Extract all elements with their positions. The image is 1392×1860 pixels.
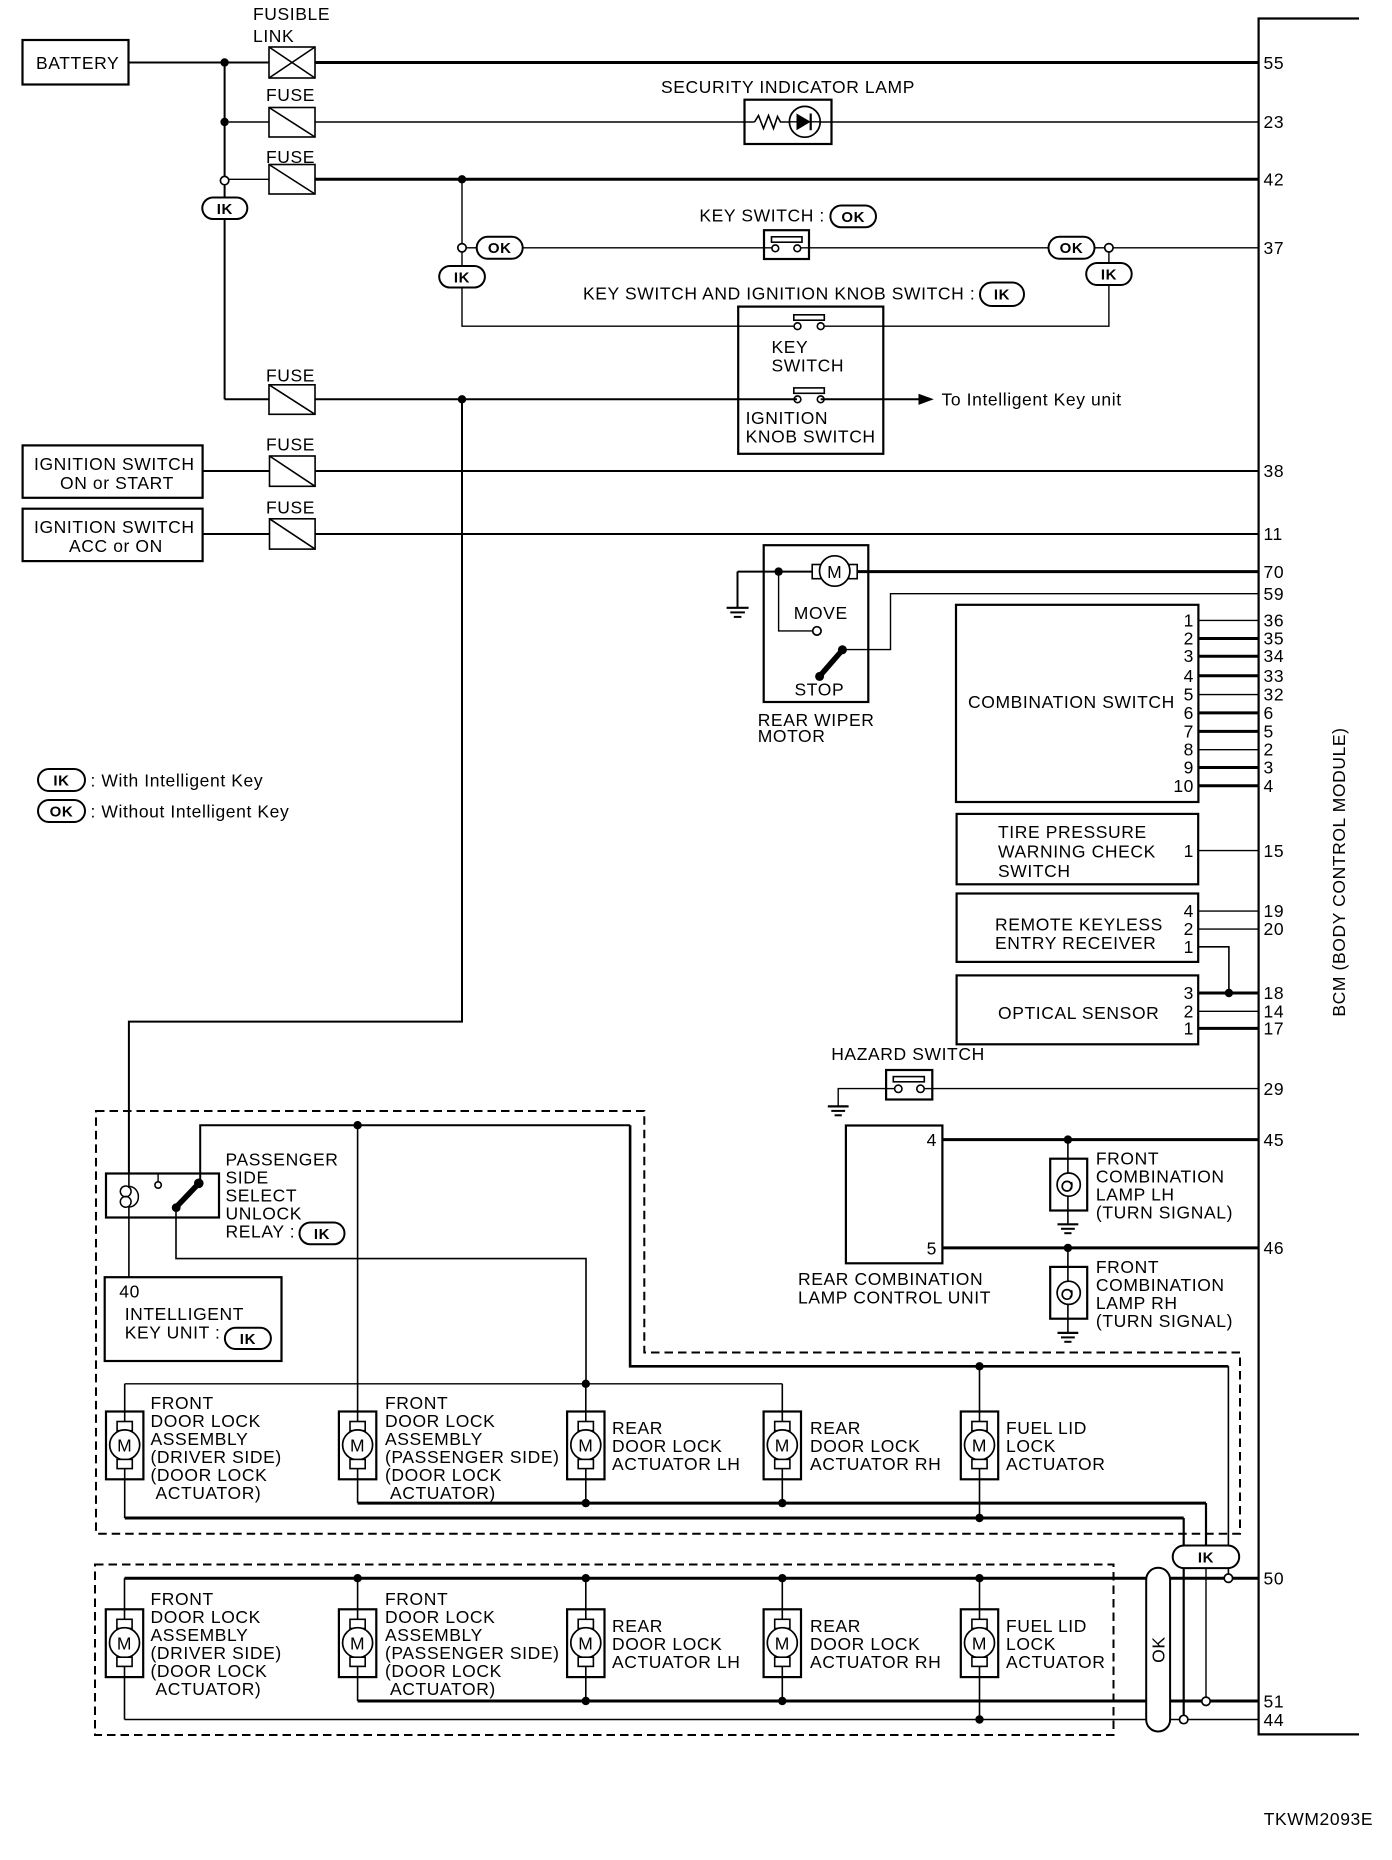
wire 42 to BCM [315, 178, 1259, 181]
svg-text:OK: OK [841, 209, 865, 226]
svg-text:23: 23 [1264, 112, 1285, 132]
combination switch pin numbers [1173, 610, 1194, 795]
svg-text:6: 6 [1264, 703, 1274, 723]
IK oval label left branch [439, 266, 485, 288]
motor M3 rear door lock LH [567, 1412, 604, 1480]
svg-text:REMOTE KEYLESS: REMOTE KEYLESS [995, 915, 1163, 935]
svg-text:FRONT: FRONT [385, 1589, 448, 1609]
svg-text:TIRE PRESSURE: TIRE PRESSURE [998, 822, 1147, 842]
wire 51 bus row2 [358, 1700, 1259, 1703]
wire row1 rear RH return [781, 1469, 783, 1504]
wire fuse F2 feed [229, 178, 269, 180]
key switch S2 contacts [772, 315, 845, 376]
svg-text:KEY UNIT :: KEY UNIT : [125, 1323, 221, 1343]
svg-text:M: M [827, 562, 842, 582]
node fuel lid feed junction [975, 1362, 983, 1370]
svg-text:ON or START: ON or START [60, 473, 174, 493]
rear combination lamp control unit box [846, 1126, 943, 1264]
label front door lock assembly driver side row1 [151, 1393, 282, 1503]
motor M4 rear door lock RH [764, 1412, 801, 1480]
svg-text:(TURN SIGNAL): (TURN SIGNAL) [1096, 1311, 1233, 1331]
wire 59 [842, 594, 1258, 650]
wire hazard to ground [838, 1089, 886, 1107]
wire 18 [1198, 992, 1258, 995]
wire row1 passenger feed [357, 1125, 359, 1421]
wire row1 bus B to pin 44 [125, 1517, 1184, 1520]
OK oval label right [1049, 237, 1095, 259]
wire row1 bus A vertical [1205, 1503, 1207, 1556]
label rear door lock actuator RH row1 [810, 1418, 941, 1474]
label rear door lock actuator RH row2 [810, 1616, 941, 1672]
svg-text:IK: IK [454, 269, 470, 286]
node bus A junction rear RH [778, 1499, 786, 1507]
svg-text:32: 32 [1264, 685, 1285, 705]
svg-text:LOCK: LOCK [1006, 1634, 1056, 1654]
hazard switch S4 [886, 1070, 932, 1100]
svg-text:PASSENGER: PASSENGER [226, 1150, 339, 1170]
svg-text:BATTERY: BATTERY [36, 53, 119, 73]
wire fuse F1 feed [229, 121, 269, 123]
svg-text:44: 44 [1264, 1710, 1285, 1730]
node open connector key switch branch [458, 244, 466, 252]
svg-text:ACTUATOR): ACTUATOR) [156, 1483, 262, 1503]
node wire51 junction rear LH [582, 1697, 590, 1705]
wire row1 rear LH return [585, 1469, 587, 1504]
svg-text:40: 40 [119, 1282, 140, 1302]
motor M9 rear door lock RH row2 [764, 1609, 801, 1677]
svg-text:IK: IK [53, 772, 69, 789]
relay bus wire [200, 1125, 630, 1180]
svg-text:(DOOR LOCK: (DOOR LOCK [151, 1661, 268, 1681]
dashed box without intelligent key group [95, 1565, 1114, 1736]
ground hazard switch [828, 1106, 849, 1115]
svg-text:SECURITY INDICATOR LAMP: SECURITY INDICATOR LAMP [661, 77, 915, 97]
legend IK with intelligent key [38, 769, 263, 791]
wire relay feed to row1 right [630, 1125, 1228, 1366]
svg-text:: With Intelligent Key: : With Intelligent Key [91, 771, 264, 791]
svg-text:LAMP RH: LAMP RH [1096, 1293, 1178, 1313]
label rear door lock actuator LH row2 [612, 1616, 740, 1672]
svg-text:STOP: STOP [795, 680, 845, 700]
wire bus to fuse F3 [225, 398, 269, 400]
node open connector pin 37 [1105, 244, 1113, 252]
svg-text:ACTUATOR): ACTUATOR) [156, 1679, 262, 1699]
svg-text:COMBINATION: COMBINATION [1096, 1275, 1225, 1295]
combination switch box [956, 605, 1198, 802]
svg-text:KEY SWITCH AND IGNITION KNOB S: KEY SWITCH AND IGNITION KNOB SWITCH : [583, 284, 975, 304]
passenger side select unlock relay K1 [106, 1174, 219, 1218]
wire 46 [942, 1246, 1258, 1249]
node fuse junction [220, 118, 228, 126]
wire row2 fuel lid feed [979, 1578, 981, 1619]
wire 23 lamp to BCM [820, 121, 1258, 123]
svg-text:(DRIVER SIDE): (DRIVER SIDE) [151, 1643, 282, 1663]
svg-text:ACTUATOR: ACTUATOR [1006, 1454, 1105, 1474]
wire row2 fuel lid return [979, 1666, 981, 1719]
label KEY SWITCH : OK [699, 206, 876, 228]
label fuel lid lock actuator row2 [1006, 1616, 1105, 1672]
svg-text:LAMP LH: LAMP LH [1096, 1185, 1175, 1205]
switch lever STOP [815, 645, 847, 681]
svg-text:FUEL LID: FUEL LID [1006, 1418, 1087, 1438]
svg-text:LAMP CONTROL UNIT: LAMP CONTROL UNIT [798, 1288, 991, 1308]
node relay bus junction [353, 1121, 361, 1129]
label rear door lock actuator LH row1 [612, 1418, 740, 1474]
wire row1 driver return [124, 1469, 126, 1519]
motor M1 front door lock driver side [106, 1412, 143, 1480]
svg-text:ACTUATOR RH: ACTUATOR RH [810, 1454, 941, 1474]
ignition switch ON or START box [23, 445, 203, 497]
svg-text:(DOOR LOCK: (DOOR LOCK [151, 1465, 268, 1485]
key switch and ignition knob switch box [738, 307, 883, 454]
wire 29 [932, 1088, 1258, 1090]
intelligent key unit box [105, 1277, 282, 1361]
node wire44 junction fuel lid [975, 1715, 983, 1723]
wire row1 top bus [125, 1383, 783, 1385]
motor M7 front door lock passenger side row2 [339, 1609, 376, 1677]
wire row1 fuel lid return [979, 1469, 981, 1519]
wire battery to fusible link [129, 62, 270, 64]
motor M8 rear door lock LH row2 [567, 1609, 604, 1677]
svg-text:6: 6 [1184, 703, 1194, 723]
svg-text:4: 4 [1264, 776, 1274, 796]
wire battery bus vertical [224, 63, 226, 177]
svg-text:(TURN SIGNAL): (TURN SIGNAL) [1096, 1203, 1233, 1223]
wire IK branch left vertical [461, 252, 463, 266]
optical sensor box [957, 975, 1199, 1044]
label front door lock assembly driver side row2 [151, 1589, 282, 1699]
wire key-switch OK branch vertical [461, 179, 463, 243]
svg-text:ASSEMBLY: ASSEMBLY [385, 1429, 483, 1449]
svg-text:IK: IK [994, 287, 1010, 304]
wire bus to fuse row [224, 219, 226, 399]
svg-text:IK: IK [314, 1226, 330, 1243]
svg-text:34: 34 [1264, 646, 1285, 666]
svg-text:ACTUATOR LH: ACTUATOR LH [612, 1652, 740, 1672]
fusible link FL [253, 4, 330, 78]
wire row2 passenger feed [357, 1578, 359, 1619]
svg-text:ASSEMBLY: ASSEMBLY [151, 1429, 249, 1449]
svg-text:42: 42 [1264, 170, 1285, 190]
svg-text:ACTUATOR): ACTUATOR) [390, 1679, 496, 1699]
wire IK branch right vertical [1108, 252, 1110, 263]
svg-text:9: 9 [1184, 758, 1194, 778]
node wiper junction [774, 567, 782, 575]
svg-text:FUSE: FUSE [266, 366, 315, 386]
svg-text:TKWM2093E: TKWM2093E [1264, 1809, 1373, 1829]
svg-text:DOOR LOCK: DOOR LOCK [810, 1436, 920, 1456]
fuse F4 [266, 435, 315, 487]
svg-text:(PASSENGER SIDE): (PASSENGER SIDE) [385, 1643, 560, 1663]
node 45 junction [1064, 1135, 1072, 1143]
svg-text:FRONT: FRONT [1096, 1149, 1159, 1169]
node 18 junction [1225, 989, 1233, 997]
node open connector pin 44 [1180, 1715, 1188, 1723]
svg-text:(DOOR LOCK: (DOOR LOCK [385, 1661, 502, 1681]
lamp front combination RH [1050, 1267, 1087, 1319]
fuse F5 [266, 498, 315, 550]
ground lamp RH [1058, 1333, 1079, 1342]
svg-text:DOOR LOCK: DOOR LOCK [385, 1411, 495, 1431]
svg-text:IGNITION SWITCH: IGNITION SWITCH [34, 517, 195, 537]
IK oval label right branch [1086, 263, 1132, 285]
motor M6 front door lock driver side row2 [106, 1609, 143, 1677]
ignition knob switch S3 contacts [746, 388, 876, 447]
svg-text:IK: IK [1198, 1549, 1214, 1566]
svg-text:3: 3 [1184, 983, 1194, 1003]
svg-text:4: 4 [927, 1130, 937, 1150]
svg-text:KEY: KEY [772, 337, 809, 357]
node row1 bus junction rear LH [582, 1380, 590, 1388]
svg-text:38: 38 [1264, 461, 1285, 481]
wire long feed vertical [129, 399, 462, 1173]
node 42 junction [458, 175, 466, 183]
svg-text:DOOR LOCK: DOOR LOCK [612, 1436, 722, 1456]
fuse F3 [266, 366, 315, 415]
wire relay coil to intelligent key unit [128, 1218, 130, 1278]
svg-text:ASSEMBLY: ASSEMBLY [151, 1625, 249, 1645]
svg-text:DOOR LOCK: DOOR LOCK [612, 1634, 722, 1654]
svg-text:INTELLIGENT: INTELLIGENT [125, 1304, 244, 1324]
wire knob switch to arrow [821, 398, 919, 400]
wire 11 [203, 533, 1259, 535]
dashed box with intelligent key group [96, 1111, 1240, 1534]
wire row1 rear RH feed [781, 1384, 783, 1422]
svg-text:FUSIBLE: FUSIBLE [253, 4, 330, 24]
ignition switch ACC or ON box [23, 509, 203, 561]
wire 55 to BCM [315, 61, 1259, 64]
remote keyless entry receiver box [957, 894, 1199, 962]
svg-text:4: 4 [1184, 901, 1194, 921]
node knob switch junction [458, 395, 466, 403]
motor M10 fuel lid lock row2 [961, 1609, 998, 1677]
svg-text:UNLOCK: UNLOCK [226, 1204, 303, 1224]
wire fuse F3 to ignition knob switch [315, 398, 797, 400]
svg-text:MOTOR: MOTOR [758, 726, 826, 746]
wire row2 rear LH return [585, 1666, 587, 1701]
svg-text:COMBINATION SWITCH: COMBINATION SWITCH [968, 692, 1175, 712]
svg-text:4: 4 [1184, 666, 1194, 686]
security indicator lamp [661, 77, 915, 144]
node open connector pin 51 [1202, 1697, 1210, 1705]
label front door lock assembly passenger side row2 [385, 1589, 560, 1699]
label front combination lamp RH [1096, 1257, 1233, 1331]
svg-text:45: 45 [1264, 1130, 1285, 1150]
wire 37 left segment [466, 247, 477, 249]
svg-text:SWITCH: SWITCH [998, 861, 1071, 881]
svg-text:ACTUATOR LH: ACTUATOR LH [612, 1454, 740, 1474]
fuse F1 [266, 85, 315, 137]
svg-text:ENTRY RECEIVER: ENTRY RECEIVER [995, 933, 1156, 953]
wire MOVE contact [779, 572, 813, 631]
svg-text:: Without Intelligent Key: : Without Intelligent Key [91, 802, 290, 822]
rear wiper motor box [764, 545, 869, 702]
svg-text:ACC or ON: ACC or ON [69, 536, 163, 556]
BCM body control module left edge [1258, 19, 1360, 1735]
label fuel lid lock actuator row1 [1006, 1418, 1105, 1474]
node open connector pin 50 [1224, 1574, 1232, 1582]
wire row1 driver feed [124, 1384, 126, 1422]
svg-text:19: 19 [1264, 901, 1285, 921]
node wire51 junction rear RH [778, 1697, 786, 1705]
svg-text:70: 70 [1264, 562, 1285, 582]
svg-text:11: 11 [1264, 524, 1283, 544]
node open connector on bus [220, 176, 228, 184]
wire row2 driver feed [124, 1578, 126, 1619]
node bus A junction rear LH [582, 1499, 590, 1507]
node wire50 junction fuel lid [975, 1574, 983, 1582]
wire row2 driver return [124, 1666, 126, 1719]
svg-text:DOOR LOCK: DOOR LOCK [151, 1607, 261, 1627]
label front door lock assembly passenger side row1 [385, 1393, 560, 1503]
OK capsule label [1146, 1568, 1170, 1732]
svg-text:IGNITION SWITCH: IGNITION SWITCH [34, 454, 195, 474]
wire IK branch right down to switch row [821, 285, 1109, 326]
wire row1 passenger return [357, 1469, 359, 1504]
ground lamp LH [1058, 1224, 1079, 1233]
wire comb feed down to pin 50 connector [1227, 1366, 1229, 1574]
svg-text:18: 18 [1264, 983, 1285, 1003]
svg-text:REAR COMBINATION: REAR COMBINATION [798, 1269, 983, 1289]
svg-text:FUSE: FUSE [266, 498, 315, 518]
svg-text:IK: IK [1101, 266, 1117, 283]
svg-text:15: 15 [1264, 841, 1285, 861]
OK oval label left [477, 237, 523, 259]
node wire50 junction passenger [353, 1574, 361, 1582]
svg-text:FUSE: FUSE [266, 85, 315, 105]
svg-text:(DRIVER SIDE): (DRIVER SIDE) [151, 1447, 282, 1467]
wire 38 [203, 470, 1259, 472]
svg-text:10: 10 [1173, 776, 1194, 796]
node wire50 junction rear LH [582, 1574, 590, 1582]
svg-text:ACTUATOR): ACTUATOR) [390, 1483, 496, 1503]
svg-text:29: 29 [1264, 1079, 1285, 1099]
svg-text:OK: OK [488, 240, 512, 257]
svg-text:51: 51 [1264, 1692, 1285, 1712]
wire 37 right of key switch [801, 247, 1049, 249]
svg-text:33: 33 [1264, 666, 1285, 686]
svg-text:FRONT: FRONT [385, 1393, 448, 1413]
ground rear wiper [727, 572, 749, 617]
svg-text:1: 1 [1184, 841, 1194, 861]
svg-text:59: 59 [1264, 584, 1285, 604]
svg-text:KNOB SWITCH: KNOB SWITCH [746, 427, 876, 447]
svg-text:SIDE: SIDE [226, 1168, 269, 1188]
svg-text:KEY SWITCH :: KEY SWITCH : [699, 206, 825, 226]
key switch S1 [764, 230, 809, 259]
wire 45 [942, 1138, 1258, 1141]
svg-text:FRONT: FRONT [151, 1393, 214, 1413]
wire bus below connector [224, 185, 226, 198]
svg-text:SELECT: SELECT [226, 1186, 298, 1206]
svg-text:OK: OK [50, 803, 74, 820]
node 46 junction [1064, 1244, 1072, 1252]
svg-text:IK: IK [217, 201, 233, 218]
svg-text:37: 37 [1264, 238, 1285, 258]
wire row2 rear RH return [781, 1666, 783, 1701]
wire row1 fuel lid feed [979, 1366, 981, 1421]
fuse F2 [266, 147, 315, 194]
svg-text:46: 46 [1264, 1238, 1285, 1258]
wire 17 [1198, 1027, 1258, 1030]
wire row2 passenger return [357, 1666, 359, 1701]
svg-text:FRONT: FRONT [151, 1589, 214, 1609]
svg-text:REAR: REAR [810, 1616, 861, 1636]
node wire50 junction rear RH [778, 1574, 786, 1582]
IK oval label on bus [202, 198, 247, 220]
svg-text:17: 17 [1264, 1018, 1285, 1038]
svg-text:COMBINATION: COMBINATION [1096, 1167, 1225, 1187]
wires combination switch to BCM [1198, 620, 1258, 785]
lamp front combination LH [1050, 1159, 1087, 1211]
svg-text:DOOR LOCK: DOOR LOCK [810, 1634, 920, 1654]
tire pressure warning check switch box [957, 814, 1199, 884]
legend OK without intelligent key [38, 800, 289, 822]
wire 70 left segment with ground [738, 571, 813, 573]
svg-text:FUEL LID: FUEL LID [1006, 1616, 1087, 1636]
svg-text:BCM (BODY CONTROL MODULE): BCM (BODY CONTROL MODULE) [1329, 727, 1349, 1016]
svg-text:LINK: LINK [253, 26, 294, 46]
svg-text:ASSEMBLY: ASSEMBLY [385, 1625, 483, 1645]
wire 37 to key switch [523, 247, 772, 249]
svg-text:DOOR LOCK: DOOR LOCK [385, 1607, 495, 1627]
svg-text:(DOOR LOCK: (DOOR LOCK [385, 1465, 502, 1485]
wire row1 bus B vertical [1183, 1518, 1185, 1715]
svg-text:REAR: REAR [810, 1418, 861, 1438]
wire row2 rear RH feed [781, 1578, 783, 1619]
label REAR COMBINATION LAMP CONTROL UNIT [798, 1269, 991, 1308]
svg-text:1: 1 [1184, 1018, 1194, 1038]
svg-text:1: 1 [1184, 937, 1194, 957]
svg-text:1: 1 [1184, 610, 1194, 630]
svg-text:5: 5 [1264, 721, 1274, 741]
label REAR WIPER MOTOR [758, 710, 875, 746]
svg-text:20: 20 [1264, 919, 1285, 939]
svg-text:ACTUATOR RH: ACTUATOR RH [810, 1652, 941, 1672]
label passenger side select unlock relay [226, 1150, 345, 1245]
svg-text:FRONT: FRONT [1096, 1257, 1159, 1277]
svg-text:REAR: REAR [612, 1616, 663, 1636]
wire lamp RH feed [1067, 1248, 1069, 1333]
svg-text:To Intelligent Key unit: To Intelligent Key unit [942, 390, 1122, 410]
svg-text:RELAY :: RELAY : [226, 1222, 296, 1242]
wire 20 [1198, 928, 1258, 930]
svg-text:HAZARD SWITCH: HAZARD SWITCH [831, 1044, 985, 1064]
wire 70 to BCM [857, 570, 1258, 573]
wire 19 [1198, 910, 1258, 912]
node bus B junction fuel lid [975, 1514, 983, 1522]
svg-text:3: 3 [1264, 758, 1274, 778]
wire receiver pin1 to node [1198, 947, 1229, 993]
svg-text:7: 7 [1184, 721, 1194, 741]
node open contact MOVE [813, 627, 821, 635]
motor M2 front door lock passenger side [339, 1412, 376, 1480]
BCM pins 36 35 34 33 32 6 5 2 3 4 [1264, 610, 1285, 795]
svg-text:50: 50 [1264, 1569, 1285, 1589]
wire 37 to BCM [1113, 247, 1259, 249]
label front combination lamp LH [1096, 1149, 1233, 1223]
svg-text:REAR: REAR [612, 1418, 663, 1438]
IK oval label bottom right [1173, 1546, 1240, 1569]
wire 15 [1198, 850, 1258, 852]
wire row1 bus A to pin 51 [358, 1502, 1206, 1505]
svg-text:IK: IK [240, 1331, 256, 1348]
wire 37 segment to connector [1095, 247, 1105, 249]
wire 44 bus row2 [125, 1719, 1259, 1721]
wire 14 [1198, 1010, 1258, 1012]
wire 50 bus row2 [125, 1577, 1259, 1580]
svg-text:IGNITION: IGNITION [746, 408, 829, 428]
